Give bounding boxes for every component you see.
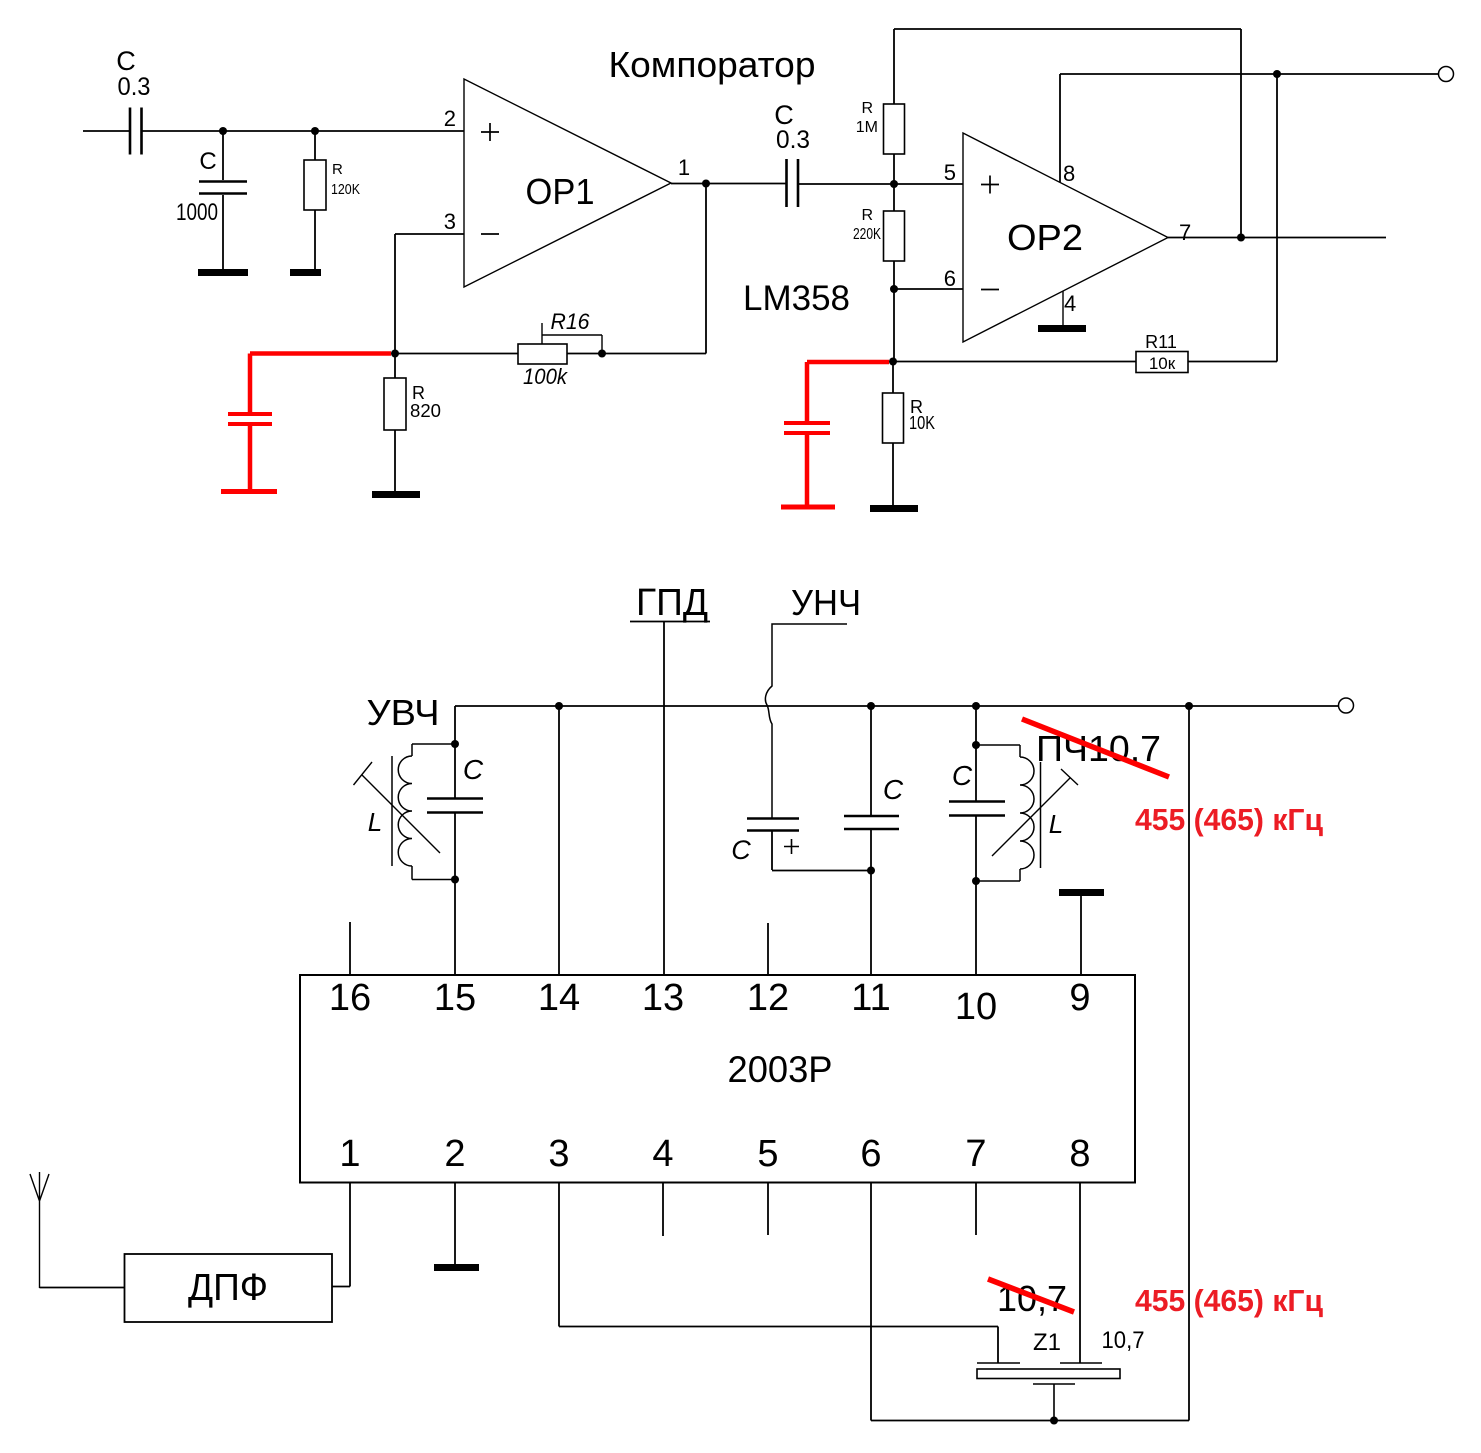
capacitor C electrolytic	[731, 819, 799, 871]
node I	[598, 350, 606, 358]
wire pin 2 and ground	[434, 1183, 479, 1272]
node G	[1237, 234, 1245, 242]
svg-text:R11: R11	[1145, 332, 1177, 352]
svg-text:ДПФ: ДПФ	[188, 1267, 268, 1309]
ground under R120K	[290, 269, 321, 276]
svg-text:5: 5	[944, 160, 956, 185]
svg-text:УВЧ: УВЧ	[367, 692, 440, 733]
svg-text:10K: 10K	[909, 413, 935, 433]
capacitor C mid	[844, 706, 904, 975]
svg-text:455 (465) кГц: 455 (465) кГц	[1135, 1283, 1323, 1318]
svg-text:C: C	[731, 835, 751, 865]
wire right vertical	[1188, 706, 1190, 1421]
node Z1 bottom	[1050, 1417, 1058, 1425]
potentiometer R16 100k	[518, 309, 602, 389]
capacitor red left	[221, 354, 391, 492]
ground under R10K	[870, 505, 918, 512]
svg-text:4: 4	[1064, 291, 1076, 316]
red strike over ПЧ10,7	[1022, 719, 1169, 777]
ground pin 9	[1059, 889, 1104, 975]
svg-text:1: 1	[678, 155, 690, 180]
svg-text:10: 10	[955, 986, 997, 1028]
inductor L tank2	[976, 745, 1078, 881]
svg-text:R: R	[861, 100, 873, 117]
svg-text:1: 1	[339, 1133, 360, 1175]
wire node H to pot	[395, 353, 518, 355]
pin 16 stub and label	[329, 922, 371, 1019]
wire pin 1	[332, 1183, 350, 1287]
svg-text:3: 3	[444, 209, 456, 234]
node OP1 out	[702, 180, 710, 188]
capacitor C tank1	[427, 754, 484, 813]
svg-text:C: C	[952, 760, 973, 791]
terminal rail right	[1339, 698, 1354, 713]
svg-text:11: 11	[851, 977, 890, 1019]
svg-text:УНЧ: УНЧ	[791, 582, 861, 623]
wire OP2 output	[1168, 237, 1386, 239]
svg-text:7: 7	[965, 1133, 986, 1175]
svg-text:4: 4	[652, 1133, 673, 1175]
node rail p11	[867, 702, 875, 710]
pin 12 stub and label	[747, 923, 789, 1019]
svg-text:L: L	[368, 807, 382, 837]
svg-text:Z1: Z1	[1033, 1329, 1061, 1356]
wire pin 8 top	[1060, 73, 1277, 75]
node E	[889, 358, 897, 366]
svg-text:R16: R16	[551, 309, 591, 334]
ground under C1000	[198, 269, 248, 276]
node B	[311, 127, 319, 135]
IC 2003P body	[300, 975, 1135, 1183]
capacitor C 0.3 coupling	[774, 100, 810, 207]
svg-text:10,7: 10,7	[1102, 1327, 1145, 1354]
wire F down to R11	[1276, 74, 1278, 362]
wire to op-amp pin 5	[798, 183, 963, 185]
antenna	[30, 1172, 49, 1288]
svg-text:Компоратор: Компоратор	[609, 44, 816, 85]
node rail right	[1185, 702, 1193, 710]
wire pin 8 vertical	[1059, 74, 1061, 182]
wire electrolytic to node J	[772, 870, 871, 872]
svg-text:16: 16	[329, 977, 371, 1019]
filter Z1	[977, 1363, 1120, 1420]
resistor R 1M	[856, 29, 905, 184]
resistor R 120K	[304, 131, 360, 270]
red strike over 10,7	[988, 1279, 1074, 1312]
wire pot to feedback	[567, 184, 706, 354]
node C	[890, 180, 898, 188]
op-amp OP2	[944, 133, 1192, 342]
resistor R 10K	[883, 361, 936, 505]
svg-text:R: R	[332, 161, 343, 178]
svg-text:1000: 1000	[176, 199, 218, 226]
svg-text:ГПД: ГПД	[636, 582, 708, 624]
svg-text:R: R	[861, 207, 873, 224]
wire to op-amp pin 2	[143, 130, 465, 132]
wire to terminal	[1277, 73, 1438, 75]
ground OP2 pin4	[1038, 291, 1086, 332]
svg-text:LM358: LM358	[743, 279, 850, 318]
svg-text:6: 6	[860, 1133, 881, 1175]
wire pin 8 to Z1	[1079, 1183, 1081, 1364]
svg-text:14: 14	[538, 977, 580, 1019]
svg-text:8: 8	[1063, 161, 1075, 186]
svg-text:C: C	[883, 774, 904, 805]
svg-text:OP2: OP2	[1007, 217, 1083, 258]
wire pin 7 stub	[975, 1183, 977, 1236]
svg-text:0.3: 0.3	[118, 73, 151, 101]
wire pin 3	[395, 234, 464, 353]
wire top from R1M	[894, 29, 1241, 238]
svg-text:2003P: 2003P	[728, 1049, 833, 1090]
wire pin 6 bottom	[871, 1183, 1189, 1421]
svg-text:12: 12	[747, 977, 789, 1019]
capacitor red right	[781, 362, 889, 507]
svg-text:15: 15	[434, 977, 476, 1019]
svg-text:7: 7	[1179, 220, 1191, 245]
svg-text:3: 3	[548, 1133, 569, 1175]
svg-text:8: 8	[1069, 1133, 1090, 1175]
block ДПФ	[125, 1254, 333, 1322]
wire input	[83, 130, 129, 132]
capacitor C 1000	[176, 131, 247, 270]
svg-text:10к: 10к	[1149, 354, 1176, 373]
node H	[391, 350, 399, 358]
pin 14 wire and label	[538, 706, 580, 1019]
capacitor C 0.3 input	[116, 46, 150, 155]
resistor R 820	[384, 354, 441, 492]
svg-text:C: C	[199, 148, 216, 175]
ground under R820	[372, 491, 420, 498]
wire pin 6	[894, 288, 963, 290]
svg-text:9: 9	[1069, 977, 1090, 1019]
svg-text:2: 2	[444, 1133, 465, 1175]
node D	[890, 285, 898, 293]
wire pin 5 stub	[767, 1183, 769, 1236]
svg-text:R: R	[412, 383, 425, 403]
terminal top right	[1439, 67, 1454, 82]
node tank1 top	[451, 740, 459, 748]
op-amp OP1	[444, 79, 690, 287]
svg-text:220K: 220K	[853, 226, 881, 243]
svg-text:L: L	[1049, 809, 1063, 839]
svg-text:0.3: 0.3	[776, 126, 810, 154]
resistor R 220K	[853, 184, 905, 289]
svg-text:C: C	[116, 46, 136, 76]
svg-text:OP1: OP1	[526, 171, 595, 212]
wire antenna to ДПФ	[40, 1287, 125, 1289]
node tank2 top	[972, 741, 980, 749]
svg-text:820: 820	[410, 401, 441, 421]
svg-text:455 (465) кГц: 455 (465) кГц	[1135, 802, 1323, 837]
wire pin 4 stub	[662, 1183, 664, 1237]
svg-text:2: 2	[444, 106, 456, 131]
svg-text:6: 6	[944, 266, 956, 291]
svg-text:13: 13	[642, 977, 684, 1019]
wire pin 13	[663, 622, 665, 976]
node rail p10	[972, 702, 980, 710]
svg-text:120K: 120K	[331, 181, 360, 198]
resistor R11 10k	[893, 332, 1277, 373]
svg-text:1M: 1M	[856, 119, 878, 136]
svg-text:C: C	[463, 754, 484, 785]
node F	[1273, 70, 1281, 78]
svg-text:100k: 100k	[523, 364, 568, 389]
wire pin 3 to Z1	[559, 1183, 998, 1364]
wire node D down	[893, 289, 895, 361]
capacitor C tank2	[949, 760, 1005, 816]
wire supply rail	[455, 705, 1338, 707]
wire OP1 output	[671, 183, 786, 185]
wire УНЧ with hop over rail	[765, 624, 847, 818]
svg-text:5: 5	[757, 1133, 778, 1175]
node tank2 bottom	[972, 877, 980, 885]
inductor L tank1	[354, 744, 456, 880]
wire pin 15 tank line	[454, 706, 456, 975]
node rail p14	[555, 702, 563, 710]
node J	[867, 867, 875, 875]
label ГПД	[630, 582, 710, 624]
wire pin 10 tank line	[975, 706, 977, 975]
node A	[219, 127, 227, 135]
node tank1 bottom	[451, 876, 459, 884]
